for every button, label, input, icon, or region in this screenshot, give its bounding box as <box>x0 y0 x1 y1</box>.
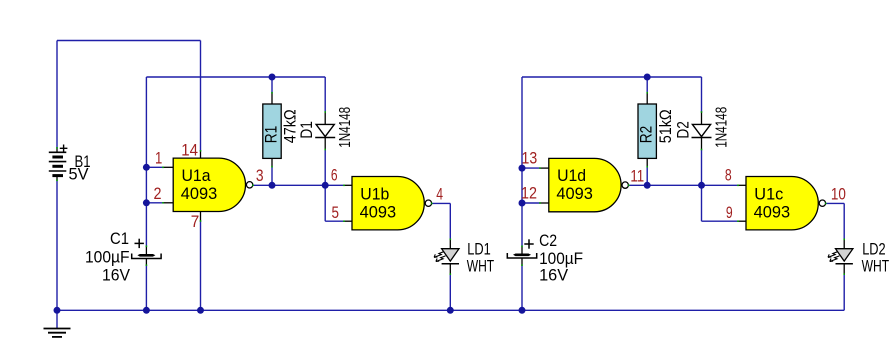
svg-text:51kΩ: 51kΩ <box>656 109 675 143</box>
svg-text:U1d: U1d <box>557 166 586 185</box>
svg-text:5: 5 <box>332 203 340 222</box>
svg-text:12: 12 <box>521 183 537 202</box>
svg-text:1: 1 <box>155 148 162 167</box>
svg-text:R1: R1 <box>261 126 280 144</box>
svg-text:R2: R2 <box>637 126 656 144</box>
svg-text:9: 9 <box>726 203 733 222</box>
svg-text:U1c: U1c <box>754 184 783 203</box>
svg-text:4093: 4093 <box>181 184 218 203</box>
svg-text:1N4148: 1N4148 <box>337 107 354 148</box>
svg-text:4093: 4093 <box>556 184 593 203</box>
svg-text:2: 2 <box>154 184 162 203</box>
svg-text:WHT: WHT <box>862 256 890 275</box>
svg-text:16V: 16V <box>102 266 130 285</box>
svg-text:6: 6 <box>331 165 338 184</box>
svg-text:3: 3 <box>256 166 264 185</box>
svg-text:C1: C1 <box>110 229 129 248</box>
svg-text:10: 10 <box>831 184 846 203</box>
svg-text:1N4148: 1N4148 <box>714 107 731 148</box>
svg-text:U1a: U1a <box>182 166 212 185</box>
svg-text:13: 13 <box>522 148 538 167</box>
svg-text:5V: 5V <box>69 164 89 183</box>
svg-text:4: 4 <box>436 184 443 203</box>
svg-text:7: 7 <box>191 212 200 231</box>
svg-text:C2: C2 <box>539 231 557 250</box>
svg-text:U1b: U1b <box>360 184 389 203</box>
svg-text:100µF: 100µF <box>85 248 130 267</box>
svg-text:WHT: WHT <box>467 256 495 275</box>
svg-text:4093: 4093 <box>360 202 397 221</box>
svg-text:4093: 4093 <box>754 202 791 221</box>
svg-text:8: 8 <box>725 165 732 184</box>
svg-text:D1: D1 <box>297 121 316 139</box>
svg-text:11: 11 <box>630 167 644 186</box>
svg-text:D2: D2 <box>673 121 692 139</box>
svg-text:14: 14 <box>181 141 198 160</box>
svg-text:16V: 16V <box>539 266 568 285</box>
